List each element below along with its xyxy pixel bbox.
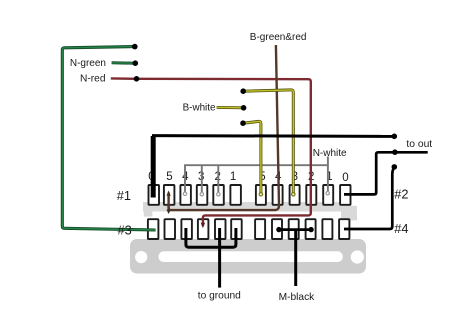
N-white wire end hooks (183, 192, 329, 196)
terminal block #4 (bottom-right row) (255, 219, 349, 239)
black M-black jumper bar across block #4 terminals (279, 228, 311, 231)
terminal block #2 (top-right row, positions 5,4,3,2,1,0) (256, 185, 351, 205)
wire end dot upper B-white wire (240, 88, 246, 94)
wire N-red (maroon) from label to pin 2 of block #2 down to block #3 terminal (111, 78, 311, 226)
junction dot left end of M-black bar (276, 227, 281, 232)
black wire to ground from block #3 (218, 228, 221, 288)
black wire into pin 0 of block #1 (151, 136, 156, 198)
wire B-white (yellow) lower, to pin 5 of block #2 (243, 121, 263, 196)
wire N-green from top dot down left side to block #3 first terminal (62, 47, 155, 230)
wire B-green&red (brown) from label through pin 4 of block #2 to pin 5 of block #1 (169, 45, 279, 210)
B-green&red wire corner stub (167, 205, 169, 211)
arrowhead B-green&red wire in pin 5 of block #1 (167, 190, 171, 196)
svg-text:N-red: N-red (80, 73, 106, 84)
terminal strip body with mounting slot and holes (130, 239, 366, 274)
svg-text:B-green&red: B-green&red (250, 32, 307, 43)
terminal strip base band (top row) (143, 202, 357, 220)
svg-text:#4: #4 (394, 221, 408, 236)
wire end dot N-green wire (132, 44, 138, 50)
svg-text:to out: to out (406, 139, 432, 150)
wire N-white bus with drops to pins 4,3,2 of block #1 and pin 1 of block #2 (185, 157, 328, 195)
black wire down to M-black label (294, 230, 297, 286)
node dot at top of wire #4 (392, 164, 398, 170)
wire end dot N-red wire (134, 76, 140, 82)
N-green label pointer line (112, 61, 136, 64)
svg-text:B-white: B-white (183, 102, 216, 113)
svg-text:5: 5 (166, 171, 172, 183)
svg-text:N-green: N-green (70, 58, 106, 69)
node dot on wire #2 (392, 149, 398, 155)
pointer dot B-white label (241, 105, 247, 111)
main black bus wire to out (152, 134, 394, 138)
svg-text:#1: #1 (117, 188, 131, 203)
black wire #2 from pin 0 of block #2 to out (344, 152, 428, 194)
svg-text:#2: #2 (394, 187, 408, 202)
svg-text:#3: #3 (118, 223, 132, 238)
arrowhead of N-red wire in block #3 terminal (201, 223, 205, 228)
arrowhead B-green&red wire below corner (167, 210, 171, 214)
svg-text:to ground: to ground (198, 290, 241, 301)
black wire #4 down to last terminal of block #4 (344, 168, 394, 230)
junction dot right end of M-black bar (308, 227, 313, 232)
wire B-white (yellow) upper, to pin 3 of block #2 (243, 90, 295, 196)
svg-text:N-white: N-white (313, 148, 347, 159)
black U jumper between terminals 3 and 6 of block #3 (186, 228, 236, 247)
B-white label pointer line (217, 106, 244, 109)
pointer dot N-green label (133, 60, 139, 66)
terminal block #1 (top-left row, positions 0,5,4,3,2,1) (149, 185, 241, 205)
svg-text:1: 1 (230, 171, 236, 183)
pin numbers block #2 (5 4 3 2 0) (259, 171, 348, 184)
svg-text:0: 0 (342, 172, 348, 184)
node dot at end of main bus (392, 134, 398, 140)
wire end dot lower B-white wire (240, 120, 246, 126)
svg-text:M-black: M-black (279, 292, 316, 303)
pin numbers block #1 (0 5 4 3 2 1) (148, 171, 236, 183)
terminal block #3 (bottom-left row) (148, 219, 242, 239)
